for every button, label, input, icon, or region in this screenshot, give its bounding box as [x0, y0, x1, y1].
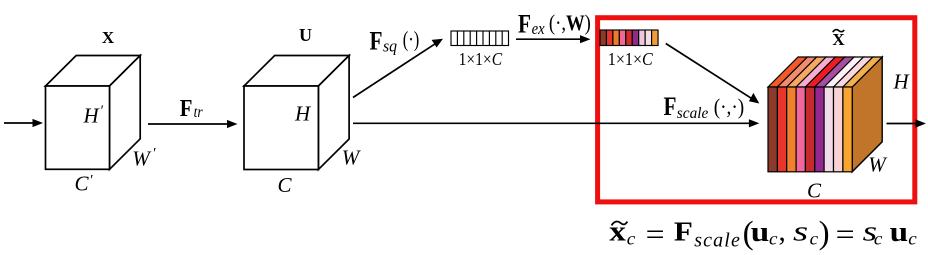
svg-text:scale: scale	[694, 230, 741, 252]
svg-text:,: ,	[779, 216, 786, 248]
svg-text:W: W	[132, 147, 152, 171]
svg-text:′: ′	[90, 173, 93, 189]
svg-text:c: c	[810, 229, 819, 249]
arrow F_ex	[516, 35, 591, 43]
svg-text:1×1×C: 1×1×C	[459, 49, 503, 69]
cube X front face	[46, 86, 110, 169]
svg-text:X: X	[102, 28, 115, 47]
arrow F_tr	[148, 120, 238, 128]
red highlight rectangle	[598, 18, 915, 202]
svg-text:(·,W): (·,W)	[549, 10, 591, 35]
svg-text:x: x	[609, 216, 626, 248]
svg-text:=: =	[646, 218, 665, 251]
scaled cube X~ : right face	[852, 57, 882, 172]
svg-text:ex: ex	[532, 19, 545, 38]
svg-text:c: c	[908, 229, 917, 249]
svg-text:sq: sq	[383, 37, 397, 56]
svg-text:(·,·): (·,·)	[714, 94, 745, 119]
svg-text:u: u	[890, 216, 909, 248]
svg-text:): )	[819, 216, 830, 252]
svg-text:C: C	[278, 173, 293, 197]
svg-text:X: X	[832, 30, 845, 49]
svg-text:(·): (·)	[403, 27, 420, 52]
svg-text:W: W	[342, 145, 362, 169]
squeezed vector 1x1xC (white bar)	[451, 31, 509, 46]
svg-text:F: F	[518, 9, 531, 38]
svg-text:scale: scale	[677, 105, 709, 122]
svg-text:tr: tr	[194, 104, 204, 121]
svg-text:C: C	[807, 179, 822, 203]
svg-text:1×1×C: 1×1×C	[608, 49, 653, 69]
svg-text:c: c	[769, 229, 778, 249]
cube U top face	[244, 56, 349, 87]
svg-text:c: c	[627, 229, 636, 249]
cube X top face	[46, 56, 141, 87]
scaled cube X~ : front face slices	[768, 87, 852, 172]
cube U right face	[318, 56, 349, 170]
svg-text:′: ′	[153, 145, 156, 161]
svg-text:U: U	[299, 25, 312, 45]
svg-text:F: F	[664, 92, 677, 121]
arrow from excitation vector to scaled cube	[666, 44, 760, 104]
svg-text:F: F	[370, 27, 383, 56]
svg-text:F: F	[180, 96, 193, 122]
svg-text:=: =	[836, 218, 855, 251]
svg-text:C: C	[75, 172, 90, 196]
long arrow F_scale from U to scaled cube	[353, 119, 759, 127]
svg-text:s: s	[793, 216, 808, 248]
input arrow	[4, 119, 43, 127]
svg-text:W: W	[868, 153, 888, 177]
arrow F_sq diagonal	[353, 39, 443, 98]
svg-text:H: H	[83, 104, 101, 128]
svg-text:F: F	[674, 217, 693, 247]
label X~ tilde	[833, 30, 844, 33]
svg-text:H: H	[893, 70, 911, 94]
excitation vector 1x1xC (colored bar)	[600, 30, 658, 46]
svg-text:u: u	[751, 216, 770, 248]
scaled cube X~ : top face slices	[768, 57, 882, 87]
svg-text:′: ′	[101, 103, 104, 119]
cube X right face	[110, 56, 141, 170]
cube U front face	[244, 86, 318, 170]
formula x~_c	[612, 222, 628, 226]
svg-text:c: c	[874, 229, 883, 249]
svg-text:H: H	[294, 101, 312, 125]
output arrow	[887, 119, 927, 127]
